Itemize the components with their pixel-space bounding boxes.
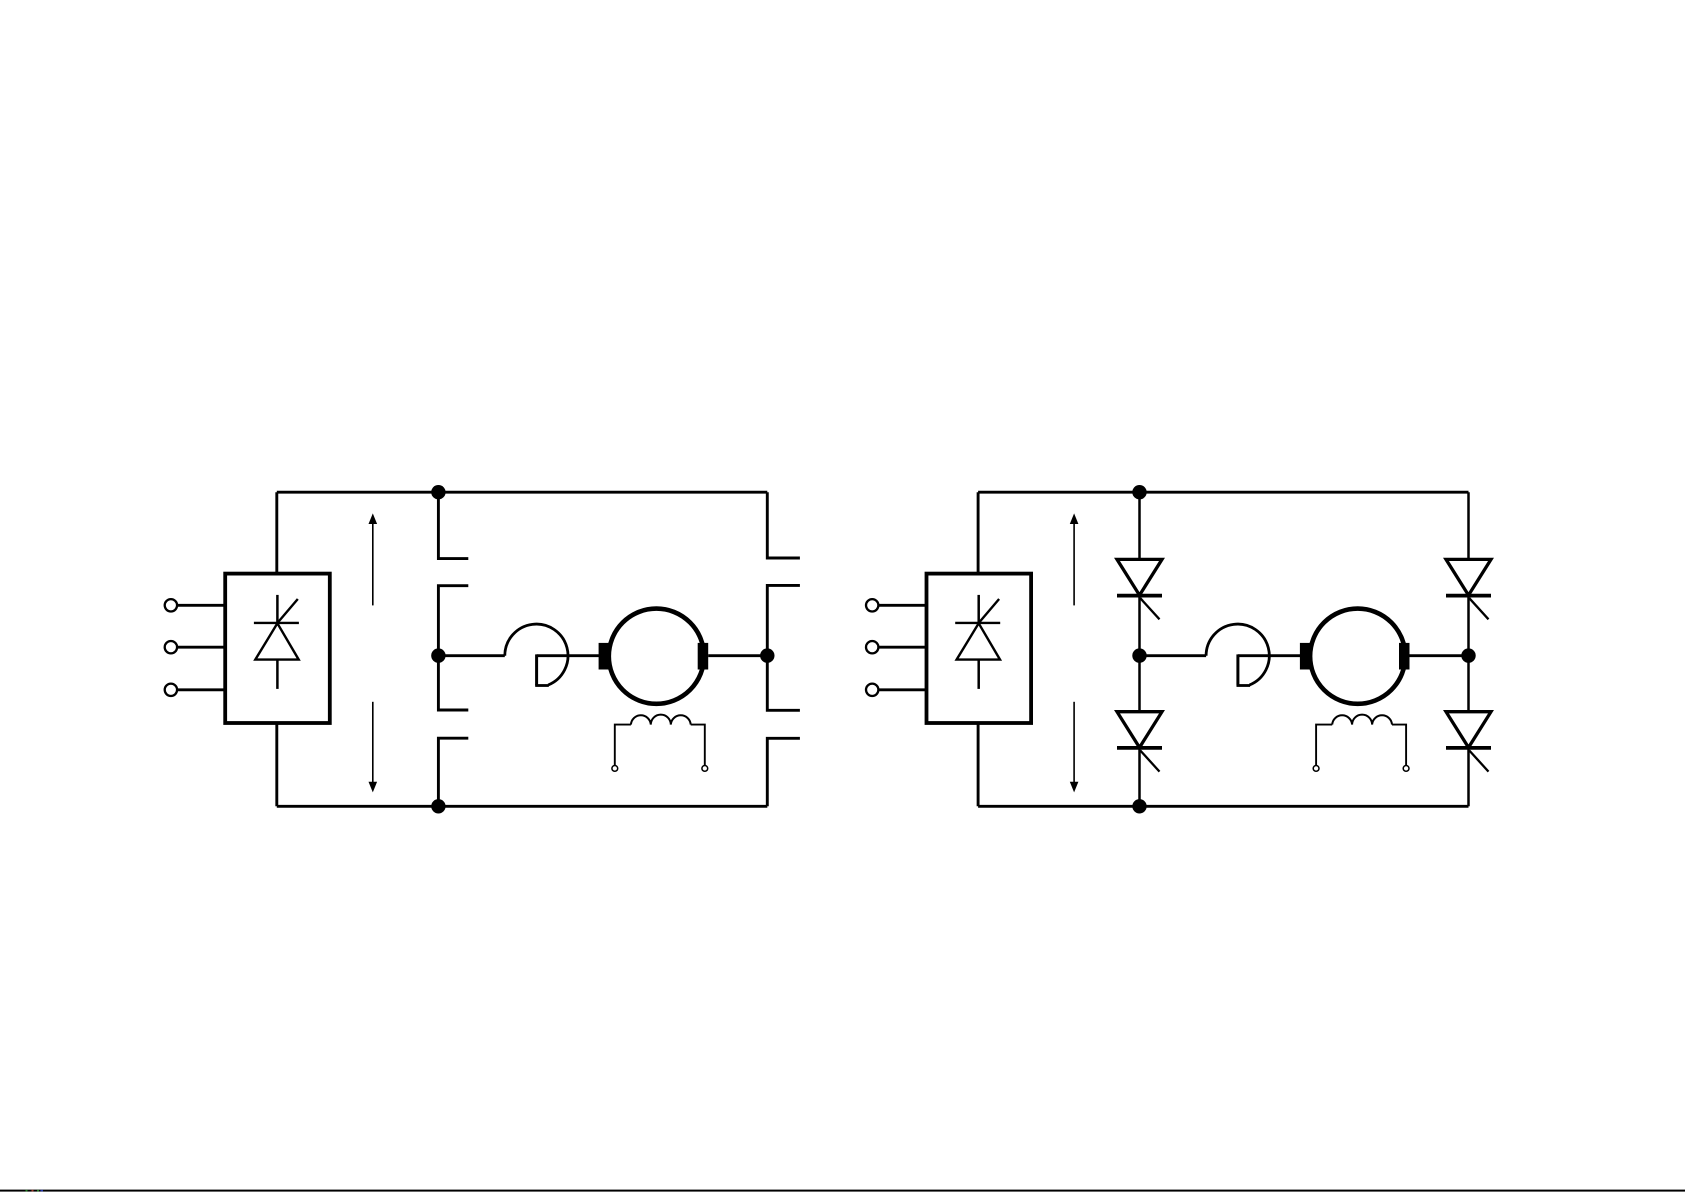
field winding F2 terminal a bbox=[1313, 766, 1319, 772]
wire L3 to converter box bbox=[177, 688, 225, 691]
terminal L2b bbox=[866, 641, 878, 653]
bottom rail wire bbox=[277, 805, 768, 808]
top rail wire bbox=[277, 491, 768, 494]
motor M2 armature circle bbox=[1310, 609, 1405, 704]
thyristor V3 gate bbox=[1469, 598, 1488, 619]
node F junction dot bbox=[1132, 648, 1146, 662]
brake symbol B1 arc bbox=[505, 624, 568, 685]
thyristor V4 cathode lead bbox=[1467, 748, 1470, 806]
thyristor V1 gate bbox=[1140, 598, 1159, 619]
thyristor V2 triangle bbox=[1117, 712, 1162, 748]
field winding F1 coil bbox=[631, 715, 691, 725]
brake symbol B2 arc bbox=[1206, 624, 1269, 685]
contact K3 upper lead bbox=[767, 492, 800, 558]
node B junction dot bbox=[431, 648, 445, 662]
node E junction dot bbox=[1132, 485, 1146, 499]
page bottom rule bbox=[0, 1190, 1685, 1192]
node D junction dot bbox=[760, 648, 774, 662]
arrow up right circuit bbox=[1070, 513, 1079, 605]
thyristor V2 cathode lead bbox=[1138, 748, 1141, 806]
thyristor V2 gate bbox=[1140, 751, 1159, 772]
wire motor M2 to node H bbox=[1410, 654, 1469, 657]
field winding F2 right lead bbox=[1392, 725, 1406, 766]
contact K2 lower lead bbox=[438, 738, 468, 806]
top rail wire right circuit bbox=[978, 491, 1468, 494]
thyristor V1 cathode bar bbox=[1117, 594, 1162, 598]
contact K4 lower lead bbox=[767, 738, 800, 806]
thyristor V2 anode lead bbox=[1138, 656, 1141, 712]
scan speck green2 bbox=[37, 1190, 39, 1192]
bottom rail wire right circuit bbox=[978, 805, 1468, 808]
node G junction dot bbox=[1132, 799, 1146, 813]
field winding F2 terminal b bbox=[1403, 766, 1409, 772]
node A junction dot bbox=[431, 485, 445, 499]
motor M1 right brush bbox=[698, 643, 709, 670]
thyristor V4 gate bbox=[1469, 751, 1488, 772]
thyristor symbol in U2: anode lead bbox=[977, 660, 980, 689]
contact K3 lower lead bbox=[767, 585, 800, 655]
motor M2 right brush bbox=[1399, 643, 1410, 670]
thyristor V2 cathode bar bbox=[1117, 746, 1162, 750]
thyristor symbol in U1: triangle bbox=[255, 623, 298, 659]
terminal L3 bbox=[165, 684, 177, 696]
field winding F2 coil bbox=[1332, 715, 1392, 725]
node C junction dot bbox=[431, 799, 445, 813]
thyristor symbol in U2: gate bbox=[979, 599, 999, 623]
wire L1 to converter box bbox=[177, 604, 225, 607]
thyristor symbol in U2: cathode lead bbox=[977, 595, 980, 623]
terminal L1b bbox=[866, 599, 878, 611]
contact K1 lower lead bbox=[438, 586, 468, 656]
thyristor symbol in U1: gate bbox=[278, 599, 298, 623]
thyristor V4 triangle bbox=[1446, 712, 1491, 748]
contact K1 upper fixed lead bbox=[438, 492, 468, 558]
wire node B to brake symbol bbox=[438, 654, 504, 657]
wire node F to brake symbol bbox=[1140, 654, 1207, 657]
wire L2 to converter box bbox=[177, 646, 225, 649]
terminal L1 bbox=[165, 599, 177, 611]
wire L2b to converter box bbox=[879, 646, 927, 649]
thyristor symbol in U1: anode lead bbox=[276, 660, 279, 689]
thyristor V3 triangle bbox=[1446, 559, 1491, 595]
arrow down right circuit bbox=[1070, 702, 1079, 793]
node H junction dot bbox=[1461, 648, 1475, 662]
thyristor V1 anode lead bbox=[1138, 492, 1141, 559]
thyristor symbol in U1: cathode lead bbox=[276, 595, 279, 623]
contact K2 upper lead bbox=[438, 656, 468, 710]
thyristor V1 cathode lead bbox=[1138, 596, 1141, 656]
wire U1 top to positive rail bbox=[275, 492, 278, 573]
brake symbol B1 sector bottom bbox=[535, 684, 549, 687]
thyristor V1 triangle bbox=[1117, 559, 1162, 595]
scan speck blue bbox=[41, 1190, 44, 1192]
thyristor symbol in U2: triangle bbox=[957, 623, 1000, 659]
thyristor V4 cathode bar bbox=[1446, 746, 1491, 750]
terminal L2 bbox=[165, 641, 177, 653]
arrow down (DC voltage polarity) bbox=[369, 702, 378, 793]
thyristor symbol in U2: cathode bar bbox=[955, 622, 1000, 624]
wire motor to node D bbox=[708, 654, 767, 657]
motor M1 left brush bbox=[599, 643, 610, 670]
wire U1 bottom to negative rail bbox=[275, 723, 278, 806]
contact K4 upper lead bbox=[767, 656, 800, 711]
brake symbol B1 sector vertical bbox=[535, 654, 538, 685]
thyristor V3 anode lead bbox=[1467, 492, 1470, 559]
wire L1b to converter box bbox=[879, 604, 927, 607]
terminal L3b bbox=[866, 684, 878, 696]
scan speck red bbox=[32, 1190, 34, 1192]
wire brake to motor brush bbox=[537, 654, 599, 657]
motor M2 left brush bbox=[1300, 643, 1311, 670]
field winding F1 terminal b bbox=[702, 766, 708, 772]
arrow up (DC voltage polarity) bbox=[369, 513, 378, 605]
converter box U1 bbox=[225, 574, 330, 723]
field winding F2 left lead bbox=[1316, 725, 1332, 766]
wire U2 bottom to negative rail bbox=[977, 723, 980, 806]
brake symbol B2 sector bottom bbox=[1237, 684, 1251, 687]
thyristor V3 cathode lead bbox=[1467, 596, 1470, 656]
wire U2 top to positive rail bbox=[977, 492, 980, 573]
thyristor V4 anode lead bbox=[1467, 656, 1470, 712]
field winding F1 left lead bbox=[615, 725, 631, 766]
wire L3b to converter box bbox=[879, 688, 927, 691]
thyristor symbol in U1: cathode bar bbox=[254, 622, 299, 624]
wire brake to motor M2 bbox=[1238, 654, 1300, 657]
scan speck green bbox=[26, 1190, 28, 1192]
brake symbol B2 sector vertical bbox=[1236, 654, 1239, 685]
thyristor V3 cathode bar bbox=[1446, 594, 1491, 598]
field winding F1 terminal a bbox=[612, 766, 618, 772]
motor M1 armature circle bbox=[609, 609, 704, 704]
field winding F1 right lead bbox=[691, 725, 705, 766]
converter box U2 bbox=[927, 574, 1032, 723]
